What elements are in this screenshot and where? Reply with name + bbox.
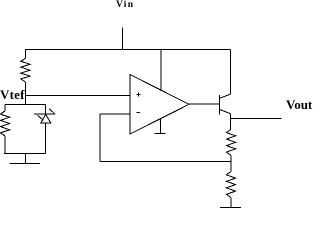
zener diode D1 cathode bar	[34, 113, 55, 115]
wire left branch bottom	[4, 136, 6, 153]
label Vout	[286, 97, 312, 113]
wire R1 to Vref node	[24, 82, 26, 105]
zener diode D1 right bent tip	[49, 109, 55, 115]
zener diode D1 left bent tip	[37, 115, 43, 120]
resistor R3	[226, 172, 235, 198]
wire Vin stub	[121, 28, 123, 50]
ground op-amp	[155, 132, 166, 134]
wire feedback vertical	[99, 114, 101, 161]
wire divider top bar	[5, 104, 46, 106]
transistor Q1 base bar	[219, 95, 221, 115]
label Vin	[116, 0, 134, 10]
wire op-amp ground stub	[159, 119, 161, 134]
wire zener bottom	[45, 123, 47, 153]
resistor R4	[0, 111, 9, 136]
wire R2 to node	[230, 155, 232, 171]
wire Vref node to op-amp + input	[25, 95, 130, 97]
transistor Q1 collector stroke	[220, 94, 231, 98]
wire Vout	[231, 118, 282, 120]
wire top rail	[25, 48, 231, 50]
wire rail corner to R1	[24, 49, 26, 58]
zener diode D1 triangle	[41, 114, 51, 123]
wire op-amp output / Q1 base	[189, 103, 220, 105]
wire emitter to R2	[230, 114, 232, 130]
wire op-amp supply	[160, 49, 162, 91]
wire ground stub left	[24, 153, 26, 163]
resistor R2	[226, 129, 235, 155]
ground right	[220, 207, 241, 209]
resistor R1	[21, 58, 30, 82]
wire left branch top	[4, 105, 6, 111]
transistor Q1 emitter stroke	[220, 109, 231, 113]
wire - input	[100, 113, 130, 115]
wire R3 to ground	[230, 198, 232, 208]
op-amp U1 triangle	[130, 75, 189, 135]
wire divider bottom bar	[4, 152, 46, 154]
wire zener top	[45, 105, 47, 115]
wire feedback horizontal	[100, 160, 231, 162]
ground left	[9, 162, 39, 164]
wire collector to rail	[230, 49, 232, 94]
op-amp - symbol	[137, 111, 141, 113]
op-amp + symbol	[137, 93, 141, 95]
label Vref	[0, 87, 25, 103]
